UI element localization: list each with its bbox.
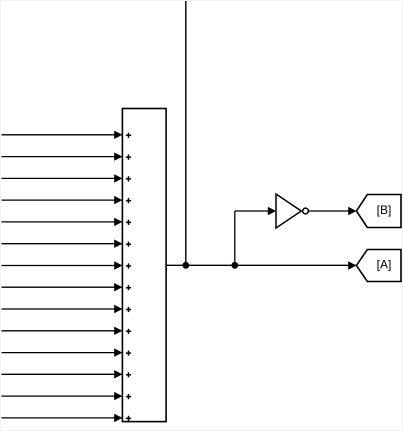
plus label port 5 bbox=[126, 220, 131, 225]
wire branch horizontal bbox=[235, 210, 269, 212]
wire input 7 bbox=[2, 265, 116, 267]
arrowhead input 9 bbox=[114, 305, 122, 313]
wire input 8 bbox=[2, 286, 116, 288]
arrowhead input 5 bbox=[114, 218, 122, 226]
wire input 9 bbox=[2, 308, 116, 310]
wire input 14 bbox=[2, 417, 116, 419]
arrowhead input 8 bbox=[114, 283, 122, 291]
arrowhead input 12 bbox=[114, 370, 122, 378]
junction node 2 bbox=[231, 262, 238, 269]
NOT gate U2 triangle bbox=[276, 194, 301, 228]
arrowhead input 2 bbox=[114, 152, 122, 160]
wire input 10 bbox=[2, 330, 116, 332]
plus label port 6 bbox=[126, 242, 131, 247]
wire branch vertical bbox=[234, 211, 236, 265]
arrowhead input 11 bbox=[114, 348, 122, 356]
plus label port 7 bbox=[126, 263, 131, 268]
plus label port 4 bbox=[126, 198, 131, 203]
arrowhead input 14 bbox=[114, 414, 122, 422]
arrowhead input 13 bbox=[114, 392, 122, 400]
plus label port 3 bbox=[126, 176, 131, 181]
svg-text:[B]: [B] bbox=[377, 203, 392, 217]
wire input 5 bbox=[2, 221, 116, 223]
arrowhead into goto A bbox=[348, 261, 356, 269]
plus label port 1 bbox=[126, 133, 131, 138]
arrowhead input 4 bbox=[114, 196, 122, 204]
arrowhead input 10 bbox=[114, 327, 122, 335]
wire NOT output bbox=[309, 210, 349, 212]
goto tag B bbox=[356, 195, 401, 228]
plus label port 2 bbox=[126, 155, 131, 160]
wire input 6 bbox=[2, 243, 116, 245]
arrowhead into goto B bbox=[348, 207, 356, 215]
plus label port 10 bbox=[126, 329, 131, 334]
goto tag A bbox=[356, 250, 401, 282]
arrowhead input 6 bbox=[114, 240, 122, 248]
wire sum output bbox=[166, 264, 356, 266]
plus label port 8 bbox=[126, 285, 131, 290]
arrowhead input 7 bbox=[114, 261, 122, 269]
plus label port 11 bbox=[126, 351, 131, 356]
plus label port 13 bbox=[126, 394, 131, 399]
plus label port 12 bbox=[126, 372, 131, 377]
wire input 11 bbox=[2, 352, 116, 354]
arrowhead input 3 bbox=[114, 174, 122, 182]
wire input 12 bbox=[2, 373, 116, 375]
wire input 13 bbox=[2, 395, 116, 397]
wire input 4 bbox=[2, 199, 116, 201]
plus label port 9 bbox=[126, 307, 131, 312]
plus label port 14 bbox=[126, 416, 131, 421]
arrowhead input 1 bbox=[114, 131, 122, 139]
wire input 1 bbox=[2, 134, 116, 136]
junction node 1 bbox=[182, 262, 189, 269]
svg-text:[A]: [A] bbox=[377, 258, 392, 272]
arrowhead into NOT gate bbox=[268, 207, 276, 215]
wire vertical top net bbox=[185, 1, 187, 265]
NOT gate U2 bubble bbox=[303, 208, 309, 214]
wire input 2 bbox=[2, 156, 116, 158]
sum block U1 bbox=[122, 109, 166, 422]
wire input 3 bbox=[2, 177, 116, 179]
